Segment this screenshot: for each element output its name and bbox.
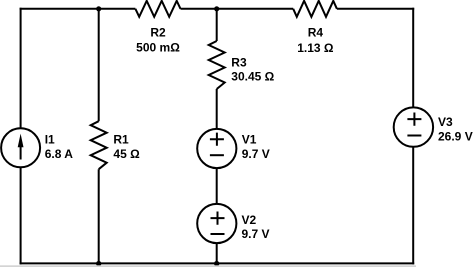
svg-text:500 mΩ: 500 mΩ — [136, 41, 180, 55]
svg-text:R2: R2 — [150, 26, 166, 40]
voltage source V2 — [197, 204, 236, 243]
wire bottom segment — [20, 262, 415, 264]
svg-text:V1: V1 — [242, 133, 257, 147]
wire V1 to V2 — [216, 168, 218, 204]
resistor R2 — [135, 1, 180, 17]
svg-text:V2: V2 — [242, 213, 257, 227]
wire left branch lower — [20, 167, 22, 264]
wire top-middle segment — [181, 8, 294, 10]
current source I1 — [1, 128, 40, 167]
wire V2 to bottom — [216, 243, 218, 263]
bottom edge band — [0, 265, 416, 267]
node top R3 junction — [214, 6, 219, 11]
wire R1 branch upper — [98, 9, 100, 121]
svg-text:30.45 Ω: 30.45 Ω — [231, 70, 274, 84]
node bottom R1 junction — [96, 261, 101, 266]
wire right branch upper — [412, 8, 414, 108]
svg-text:I1: I1 — [45, 133, 55, 147]
voltage source V3 — [394, 107, 433, 146]
wire middle branch top — [216, 9, 218, 41]
node bottom middle junction — [214, 261, 219, 266]
resistor R3 — [209, 41, 225, 89]
svg-text:26.9 V: 26.9 V — [438, 129, 473, 143]
svg-text:V3: V3 — [438, 115, 453, 129]
svg-text:6.8 A: 6.8 A — [45, 147, 74, 161]
wire right branch lower — [412, 147, 414, 265]
wire top-right segment — [337, 8, 414, 10]
voltage source V1 — [197, 129, 236, 168]
node top R1 junction — [96, 6, 101, 11]
svg-text:45 Ω: 45 Ω — [113, 147, 140, 161]
svg-text:R4: R4 — [308, 25, 324, 39]
svg-text:R3: R3 — [231, 55, 247, 69]
svg-text:1.13 Ω: 1.13 Ω — [297, 41, 334, 55]
wire top-left segment — [20, 8, 136, 10]
wire R1 branch lower — [98, 169, 100, 263]
svg-text:R1: R1 — [113, 133, 129, 147]
wire R3 to V1 — [216, 89, 218, 129]
wire left branch upper — [20, 8, 22, 129]
resistor R1 — [91, 121, 107, 169]
resistor R4 — [293, 1, 337, 17]
svg-text:9.7 V: 9.7 V — [242, 227, 270, 241]
svg-text:9.7 V: 9.7 V — [242, 147, 270, 161]
